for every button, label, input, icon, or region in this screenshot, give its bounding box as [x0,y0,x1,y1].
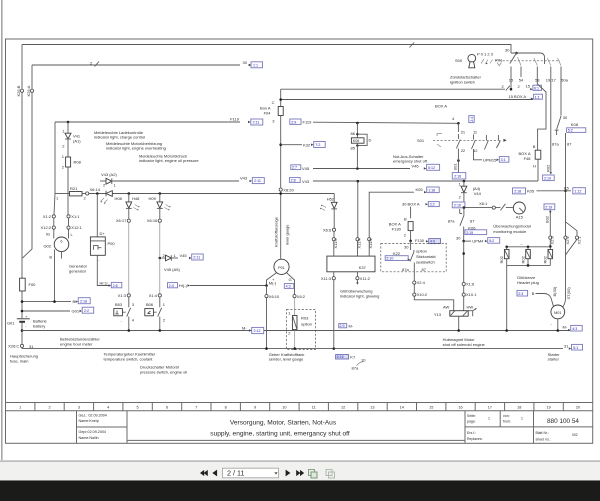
wire 15 to fuse row labels [510,77,512,89]
svg-text:3:2: 3:2 [430,203,435,207]
svg-text:ignition switch: ignition switch [450,79,475,84]
svg-text:AW: AW [443,305,450,310]
svg-text:B: B [533,144,536,149]
K37 bottom pins X11:3 X11:2 [333,272,335,277]
svg-text:seatswitch: seatswitch [416,260,435,265]
svg-text:1:1: 1:1 [253,63,258,67]
svg-text:P01: P01 [495,58,503,63]
svg-text:87: 87 [470,218,475,223]
terminals X12:2 X12:1 [53,218,55,226]
terminal X11:6 [332,238,335,241]
wire V45/V46 row [291,165,301,170]
switch B53 [114,309,123,316]
svg-text:2:15: 2:15 [466,231,473,235]
glow plug bus bottom [507,264,551,266]
svg-text:Ers.f.:: Ers.f.: [467,431,476,435]
svg-text:H52: H52 [327,197,335,202]
LED H48 [128,194,130,202]
svg-text:R02: R02 [545,164,550,172]
svg-text:B: B [532,291,535,296]
svg-text:K37: K37 [359,265,367,270]
svg-text:2:4: 2:4 [470,117,474,122]
wire 50a and relay contact K08 [560,77,562,116]
svg-text:S01: S01 [417,138,425,143]
svg-text:F130: F130 [392,227,402,232]
svg-text:Sitzkontakt: Sitzkontakt [416,254,436,259]
wire marker 2 on K25:A wire [95,62,100,67]
svg-text:X6:2: X6:2 [297,294,306,299]
wire ignition 15 feed [281,88,505,90]
svg-text:K32: K32 [303,142,311,147]
svg-text:V46: V46 [412,163,420,168]
svg-text:5:12: 5:12 [428,166,435,170]
svg-text:2:9: 2:9 [291,120,296,124]
svg-text:X11:3: X11:3 [321,276,332,281]
junction H09 [159,192,162,195]
hour meter P00 [96,194,98,237]
svg-text:X6:16: X6:16 [147,218,158,223]
svg-text:20: 20 [576,406,580,410]
svg-text:X2:2: X2:2 [565,235,570,244]
svg-text:HI:U: HI:U [100,281,108,286]
ground bus 31 [22,348,563,350]
svg-text:V43 (A2): V43 (A2) [101,172,117,177]
svg-text:K05: K05 [416,187,424,192]
svg-text:12: 12 [341,406,345,410]
svg-text:V43: V43 [302,179,310,184]
svg-text:X2:4: X2:4 [417,280,426,285]
svg-text:2:8: 2:8 [291,179,296,183]
emergency stop S01 [457,122,460,125]
svg-text:14: 14 [400,406,404,410]
svg-text:Kraftstoffanzeige: Kraftstoffanzeige [274,216,279,247]
svg-text:level gauge: level gauge [285,224,290,245]
svg-text:K25:B: K25:B [16,85,21,96]
terminal K25:B [20,89,23,92]
svg-text:2:18: 2:18 [514,190,521,194]
svg-text:F04: F04 [264,110,272,115]
wire generator B to bus [54,250,56,302]
svg-text:BOX A: BOX A [435,104,447,109]
svg-text:87a: 87a [448,218,455,223]
svg-text:7: 7 [195,406,197,410]
svg-text:87: 87 [422,267,427,272]
svg-text:engine hour meter: engine hour meter [60,341,93,346]
svg-text:6:16: 6:16 [337,355,344,359]
svg-text:B53: B53 [115,302,123,307]
svg-text:R08: R08 [74,160,82,165]
title block [77,411,593,444]
temperature switch B53 chain [128,222,130,294]
column ruler numbers 1..20 [19,403,580,411]
svg-text:option: option [416,249,427,254]
svg-text:page:: page: [467,420,476,424]
svg-text:F130: F130 [415,238,425,243]
junction K32 branch [279,143,282,146]
gauge left pin to X6:10 [267,273,277,286]
svg-text:B: B [49,255,52,260]
svg-text:G02: G02 [43,244,51,249]
svg-text:2 / 11: 2 / 11 [227,468,244,477]
svg-text:B: B [73,299,76,304]
svg-text:30: 30 [456,236,461,241]
svg-text:6:1: 6:1 [534,87,539,91]
pressure switch B06 chain [159,222,161,256]
svg-text:F119: F119 [303,120,313,125]
svg-text:UPM15: UPM15 [483,157,497,162]
svg-text:X6:6: X6:6 [323,227,332,232]
page number box [223,468,279,478]
glow plug R02 #3 [548,250,553,259]
svg-text:monitoring module: monitoring module [493,229,527,234]
svg-text:86: 86 [351,131,356,136]
junction battery minus [21,329,24,332]
svg-text:2:19: 2:19 [545,206,552,210]
svg-text:X12:2: X12:2 [41,225,52,230]
wire K05 right to 1:12 [513,188,526,194]
wire K05 row to X11:5 [369,192,414,237]
indicator bus wire [89,193,334,195]
svg-text:R02: R02 [499,255,504,263]
svg-text:G01: G01 [72,309,80,314]
svg-text:17: 17 [488,406,492,410]
switch B06 [145,309,154,316]
svg-text:shut off solenoid engine: shut off solenoid engine [443,342,486,347]
wire V43 row right segment [289,178,300,183]
svg-text:87a: 87a [402,267,409,272]
svg-text:V45: V45 [302,166,310,171]
svg-text:5:2: 5:2 [568,129,573,133]
svg-text:4:3: 4:3 [572,327,577,331]
svg-text:2:9: 2:9 [340,324,345,328]
svg-text:002: 002 [572,433,578,437]
terminal X6:6 [332,228,335,231]
svg-text:A15: A15 [516,215,524,220]
svg-text:D+: D+ [100,231,106,236]
LED H52 chain [333,194,335,203]
svg-text:2:11: 2:11 [193,256,200,260]
glow control K37 box [327,256,375,272]
svg-text:2:11: 2:11 [253,121,260,125]
svg-text:30: 30 [505,48,510,53]
next page button [286,470,291,477]
node 2:9 M- [339,324,347,328]
svg-text:2:11: 2:11 [254,179,261,183]
wire F119 feed left segment [55,121,240,123]
wire HI(-) [168,283,178,288]
snapshot icons [309,470,335,479]
wire down from F119 bus to R21 [54,122,56,194]
svg-text:von:: von: [503,414,510,418]
svg-text:7:2: 7:2 [315,143,320,147]
svg-text:V45 (A5): V45 (A5) [164,267,180,272]
dashed option box seat switch [381,243,446,271]
relay coil K06 [356,122,359,125]
svg-text:V43: V43 [240,176,248,181]
svg-text:3:1: 3:1 [501,158,506,162]
contact K06 87/87a under V44 [463,208,465,216]
svg-text:6: 6 [61,240,63,244]
drawing frame [6,39,593,443]
svg-text:HW: HW [467,305,474,310]
svg-text:B(30): B(30) [552,286,557,296]
svg-text:S01: S01 [453,163,458,171]
connector X2 bulge [566,222,578,255]
svg-text:Seite:: Seite: [467,414,476,418]
svg-text:P00: P00 [108,241,116,246]
svg-text:1:12: 1:12 [574,190,581,194]
svg-text:30: 30 [563,115,568,120]
page left edge line [1,0,3,460]
wire F48 H to V43 row [537,159,539,181]
svg-text:30: 30 [404,245,409,250]
svg-text:indicator light, glowing: indicator light, glowing [340,293,379,298]
svg-text:indicator light, engine oil pr: indicator light, engine oil pressure [139,158,199,163]
svg-text:2:6: 2:6 [113,284,118,288]
K37 top pins X11:6 X11:4 X11:5 [334,241,369,256]
svg-text:UPM4: UPM4 [472,238,484,243]
svg-text:X26:C: X26:C [8,343,19,348]
svg-text:K05: K05 [527,188,535,193]
diode V41 (A1) charge indicator [67,122,69,133]
wire glow M- down [506,265,508,330]
svg-text:F00: F00 [29,282,37,287]
svg-text:X10:2: X10:2 [417,292,428,297]
wire top bus 30 (battery feed) [22,45,511,54]
svg-text:Blatt Nr.:: Blatt Nr.: [536,431,549,435]
svg-text:54: 54 [519,77,524,82]
svg-text:X11:6: X11:6 [333,238,338,249]
svg-text:2:3: 2:3 [518,292,523,296]
wire 58 to F48 [537,77,546,150]
svg-text:B06: B06 [146,302,154,307]
svg-text:87a: 87a [352,366,359,371]
junction F04 top [280,89,282,106]
wire S01 21/22 to 2:16 [457,159,460,162]
svg-text:2:16: 2:16 [454,175,461,179]
svg-text:supply, engine, starting unit,: supply, engine, starting unit, emergancy… [210,431,350,438]
svg-text:K22: K22 [393,251,401,256]
svg-text:Header plug: Header plug [517,280,539,285]
svg-text:ST(50): ST(50) [566,287,571,300]
svg-text:K5: K5 [564,186,570,191]
wire V43 left segment [112,180,239,182]
svg-text:X2:1: X2:1 [576,235,581,244]
svg-text:K08: K08 [571,122,579,127]
svg-text:X11:5: X11:5 [368,238,373,249]
svg-text:8: 8 [225,406,227,410]
svg-text:15 BOX A: 15 BOX A [509,94,527,99]
svg-text:P 0 1 2 3: P 0 1 2 3 [477,52,494,57]
svg-text:2:18: 2:18 [80,299,87,303]
svg-text:5:10: 5:10 [386,257,393,261]
svg-text:Überwachungsmodul: Überwachungsmodul [493,224,531,229]
svg-text:Y13: Y13 [434,312,442,317]
svg-text:X10.1: X10.1 [466,292,477,297]
last page button [296,470,300,476]
svg-text:1: 1 [488,417,490,421]
wire 19/17 down to 2:19 [550,77,552,172]
svg-text:D: D [369,138,372,143]
svg-text:X11:4: X11:4 [357,238,362,249]
diode V44 (A4) [463,180,466,183]
gauge right pin to X6:2 [286,273,294,295]
svg-text:temperature switch, coolant: temperature switch, coolant [104,356,154,361]
svg-text:M01: M01 [554,311,561,315]
svg-text:pressure switch, engine oil: pressure switch, engine oil [140,369,187,374]
svg-text:87: 87 [567,142,572,147]
prev page button [212,470,217,477]
svg-text:5: 5 [137,406,139,410]
svg-text:F48: F48 [524,156,532,161]
svg-text:K06: K06 [353,139,359,143]
svg-text:Gez.: 02.09.2004: Gez.: 02.09.2004 [79,414,107,418]
svg-text:V44: V44 [474,191,482,196]
terminals X2:4 X10:2 [413,281,416,284]
wire 87 down to starter ST(50) [563,133,566,307]
terminal X8:20 [279,188,282,191]
svg-text:18: 18 [517,406,521,410]
option fuel sender R03 dashed box [287,310,316,350]
reference box K08 5:2 [567,128,586,133]
svg-text:X8:20: X8:20 [283,187,294,192]
svg-text:B: B [404,217,407,222]
svg-text:H48: H48 [132,196,140,201]
svg-text:Replaces:: Replaces: [467,437,483,441]
svg-text:M-: M- [563,324,568,329]
terminal X6:14 [86,192,89,195]
svg-text:1:18: 1:18 [428,189,435,193]
svg-text:5:1: 5:1 [573,346,578,350]
svg-text:2:16: 2:16 [454,204,461,208]
svg-text:fuse, main: fuse, main [10,358,28,363]
svg-text:19: 19 [546,406,550,410]
LED H08 [106,191,112,197]
svg-text:V45: V45 [180,253,188,258]
svg-text:R21: R21 [70,186,78,191]
wire K25:A vertical [23,65,32,258]
svg-text:2: 2 [48,406,50,410]
junction X11:3 ground [333,347,336,350]
terminal X6:17 [127,219,130,222]
svg-text:87a: 87a [552,142,559,147]
terminal X26:C [20,344,23,347]
svg-text:H08: H08 [115,196,123,201]
svg-text:2:7: 2:7 [292,166,297,170]
glow plug bus top [507,246,551,248]
svg-text:F119: F119 [230,117,240,122]
svg-text:21: 21 [461,130,466,135]
first page button [200,468,304,478]
svg-text:emergancy shut off: emergancy shut off [393,159,428,164]
svg-text:X6:17: X6:17 [116,218,127,223]
svg-text:HI(-): HI(-) [179,283,188,288]
svg-text:22: 22 [461,148,466,153]
junction P00 feed [96,192,99,195]
svg-text:P01: P01 [278,266,285,270]
wire down to X1:6 X10:1 [463,241,465,282]
svg-text:X1:3: X1:3 [118,293,127,298]
svg-text:X11:2: X11:2 [360,276,371,281]
svg-text:15: 15 [526,84,531,89]
svg-text:X1:2: X1:2 [43,214,52,219]
svg-text:from:: from: [503,420,511,424]
glow plug R02 #2 [527,247,529,250]
svg-text:generator: generator [69,268,87,273]
svg-text:indicator light, engine overhe: indicator light, engine overheating [106,146,166,151]
svg-text:IG: IG [46,232,50,237]
junction V41 top [67,121,70,124]
svg-text:X1:1: X1:1 [71,214,80,219]
svg-text:Versorgung, Motor, Starten, No: Versorgung, Motor, Starten, Not-Aus [230,420,337,427]
svg-text:Name:Nallin: Name:Nallin [79,436,99,440]
svg-text:sheet no.:: sheet no.: [536,438,551,442]
svg-text:G: G [289,277,292,282]
svg-text:6: 6 [166,406,168,410]
ignition contact stubs 15 54 58 19/17 50a [511,67,561,78]
svg-text:9: 9 [254,406,256,410]
svg-text:2:19: 2:19 [544,177,551,181]
svg-text:X6:14: X6:14 [90,187,101,192]
svg-text:30: 30 [243,60,248,65]
node 2:3 B glow feed [517,290,528,296]
svg-text:16: 16 [458,406,462,410]
pdf viewer toolbar [0,461,600,501]
svg-text:2:12: 2:12 [254,329,261,333]
wire marker on top bus [410,43,415,48]
svg-text:R02: R02 [542,255,547,263]
mechanical dashed link ignition [495,60,560,62]
svg-text:1: 1 [19,406,21,410]
generator terminals X1:2 X1:1 [54,194,55,216]
svg-text:sender, level gauge: sender, level gauge [269,357,304,362]
svg-text:31: 31 [564,343,569,348]
svg-text:S00: S00 [455,58,463,63]
svg-text:starter: starter [548,357,560,362]
svg-text:H09: H09 [149,196,157,201]
svg-text:B02: B02 [545,215,550,223]
svg-text:2:4: 2:4 [169,284,174,288]
svg-text:15: 15 [429,406,433,410]
svg-text:4:3: 4:3 [286,285,291,289]
svg-text:Gepr.02.09.2004: Gepr.02.09.2004 [79,430,106,434]
wire S01 12 to UPM15 ref 3:1 [474,153,483,160]
generator G02 [54,229,69,238]
svg-text:30 BOX A: 30 BOX A [402,201,420,206]
wire V43 junction to X11:4 [357,181,359,237]
terminal K25:A [30,89,33,92]
svg-text:4: 4 [107,406,109,410]
svg-text:880 100 54: 880 100 54 [547,418,579,425]
svg-text:3: 3 [78,406,80,410]
svg-text:R02: R02 [520,255,525,263]
svg-text:M-: M- [242,325,247,330]
svg-text:option: option [301,322,312,327]
svg-text:11: 11 [312,406,316,410]
terminal X6:10 [266,286,268,295]
svg-text:indicator light, charge contro: indicator light, charge control [94,135,145,140]
node 2:9 F119 right segment [290,119,301,124]
svg-text:X1:4: X1:4 [149,293,158,298]
monitoring gauge A15 [513,202,525,214]
svg-text:battery: battery [33,324,45,329]
wire G01 ref [22,310,70,312]
svg-text:1:1: 1:1 [535,95,540,99]
svg-text:G01: G01 [7,321,15,326]
dashed actuator and link S01 [433,139,501,141]
svg-text:2:2: 2:2 [84,309,89,313]
svg-text:X6:1: X6:1 [479,201,488,206]
